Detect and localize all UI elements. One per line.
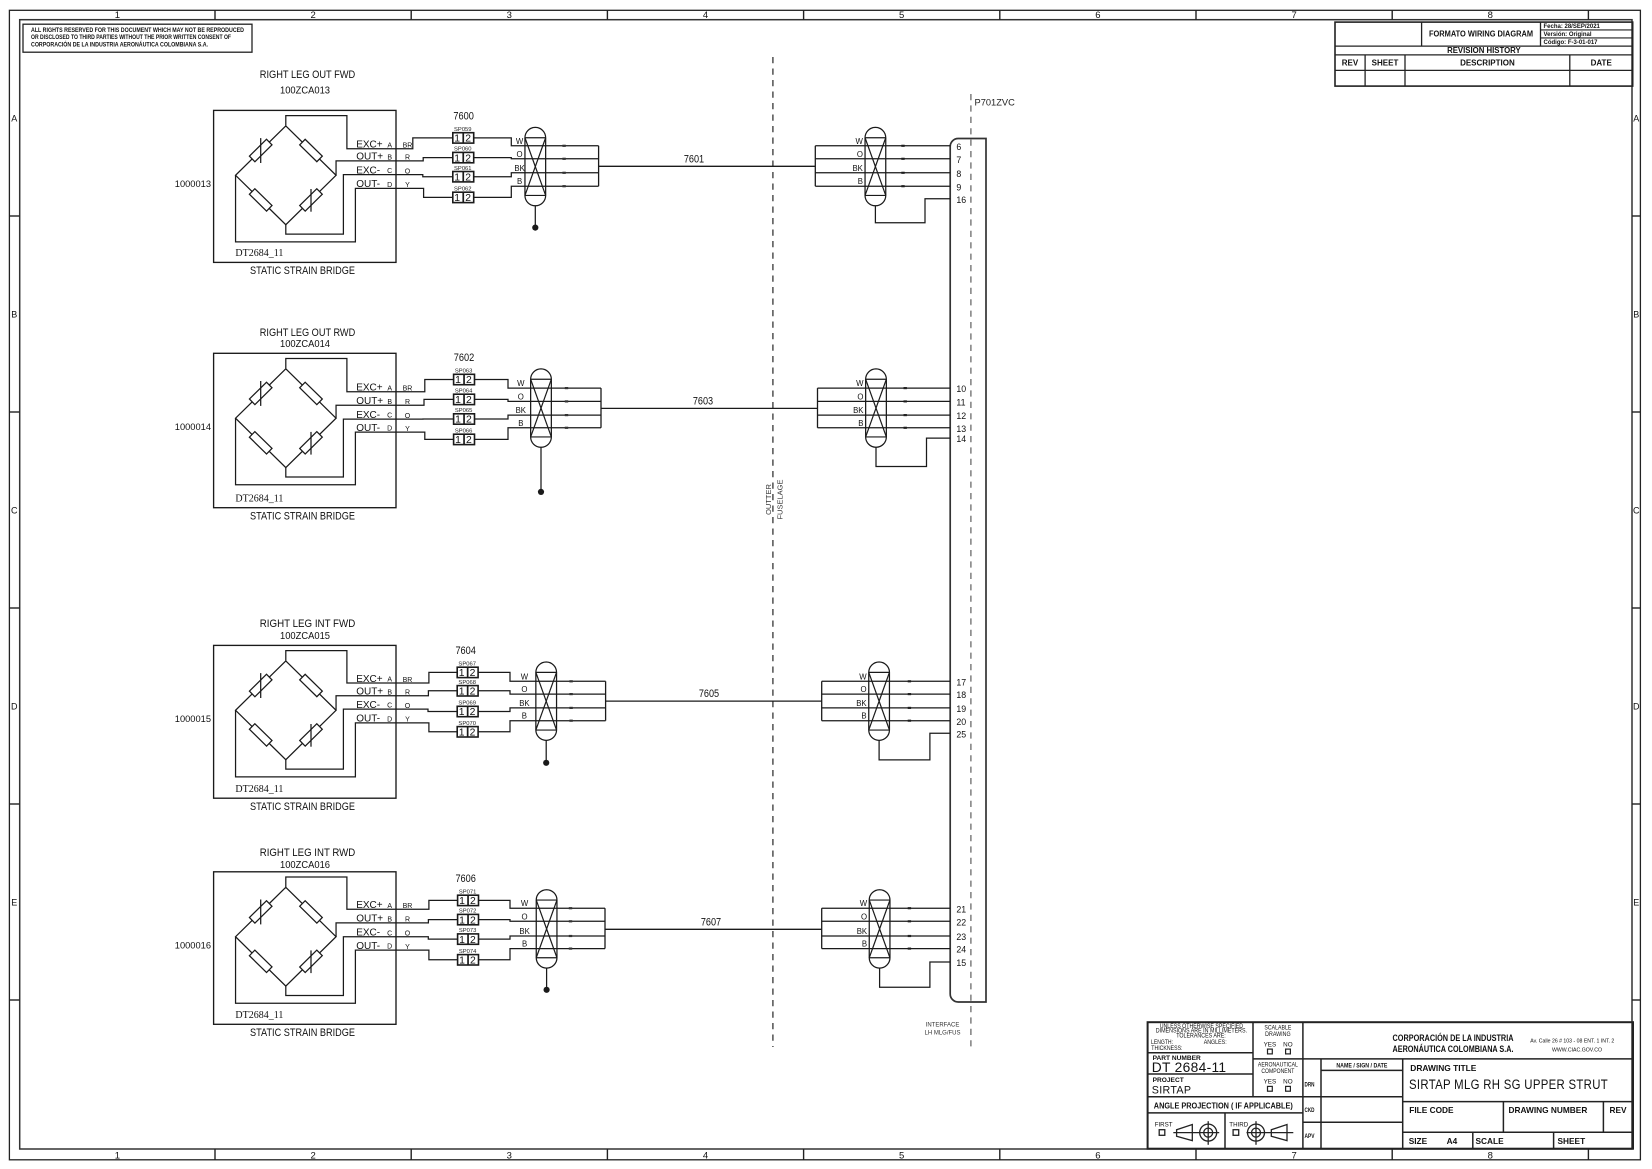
- svg-text:6: 6: [1095, 1150, 1100, 1161]
- svg-text:B: B: [522, 712, 527, 721]
- svg-text:BK: BK: [857, 927, 868, 936]
- svg-text:B: B: [387, 399, 392, 406]
- svg-text:DRN: DRN: [1305, 1082, 1315, 1089]
- svg-text:Código: F-3-01-017: Código: F-3-01-017: [1544, 40, 1599, 46]
- svg-text:O: O: [861, 685, 867, 694]
- svg-text:EXC+: EXC+: [356, 900, 383, 911]
- svg-text:1: 1: [115, 1150, 120, 1161]
- svg-text:7606: 7606: [455, 873, 476, 885]
- svg-text:16: 16: [956, 195, 966, 205]
- svg-text:1: 1: [459, 935, 465, 946]
- svg-text:SP060: SP060: [454, 147, 472, 153]
- svg-text:2: 2: [465, 172, 471, 183]
- svg-text:STATIC STRAIN BRIDGE: STATIC STRAIN BRIDGE: [250, 510, 355, 522]
- svg-text:C: C: [387, 168, 392, 175]
- svg-text:2: 2: [470, 707, 476, 718]
- svg-text:DT2684_11: DT2684_11: [235, 784, 283, 795]
- svg-text:D: D: [11, 701, 18, 711]
- svg-text:11: 11: [956, 398, 965, 408]
- svg-text:A: A: [387, 903, 392, 910]
- svg-text:SP067: SP067: [458, 662, 476, 668]
- svg-text:DRAWING NUMBER: DRAWING NUMBER: [1509, 1105, 1588, 1115]
- svg-text:REV: REV: [1610, 1105, 1628, 1115]
- svg-text:W: W: [517, 379, 525, 388]
- svg-text:B: B: [387, 155, 392, 162]
- svg-text:2: 2: [470, 935, 476, 946]
- svg-text:B: B: [522, 940, 527, 949]
- svg-text:SP066: SP066: [455, 429, 473, 435]
- svg-text:A: A: [387, 677, 392, 684]
- svg-text:1000013: 1000013: [175, 179, 211, 189]
- svg-text:NO: NO: [1283, 1079, 1293, 1086]
- svg-text:EXC-: EXC-: [356, 410, 380, 421]
- svg-text:FILE CODE: FILE CODE: [1409, 1105, 1454, 1115]
- svg-text:D: D: [387, 182, 392, 189]
- svg-text:7600: 7600: [453, 110, 474, 122]
- svg-text:2: 2: [470, 956, 476, 967]
- svg-text:SP072: SP072: [459, 909, 477, 915]
- svg-text:25: 25: [956, 729, 966, 739]
- svg-text:YES: YES: [1264, 1079, 1277, 1086]
- svg-text:YES: YES: [1264, 1041, 1277, 1048]
- svg-text:7601: 7601: [684, 153, 704, 165]
- svg-text:DT2684_11: DT2684_11: [235, 248, 283, 259]
- svg-text:WWW.CIAC.GOV.CO: WWW.CIAC.GOV.CO: [1552, 1048, 1602, 1054]
- svg-text:W: W: [856, 137, 864, 146]
- svg-text:2: 2: [466, 375, 472, 386]
- svg-text:OUT-: OUT-: [356, 423, 380, 434]
- svg-text:3: 3: [507, 10, 512, 21]
- svg-text:2: 2: [466, 415, 472, 426]
- svg-text:OUT-: OUT-: [356, 714, 380, 725]
- svg-text:O: O: [861, 912, 867, 921]
- svg-text:SP063: SP063: [455, 369, 473, 375]
- svg-text:B: B: [862, 940, 867, 949]
- svg-text:1: 1: [454, 153, 460, 164]
- svg-text:2: 2: [465, 134, 471, 145]
- svg-text:E: E: [11, 897, 17, 907]
- svg-text:P701ZVC: P701ZVC: [975, 98, 1016, 108]
- svg-text:100ZCA014: 100ZCA014: [280, 339, 330, 350]
- svg-text:CORPORACIÓN DE LA INDUSTRIA AE: CORPORACIÓN DE LA INDUSTRIA AERONÁUTICA …: [31, 41, 208, 49]
- svg-text:D: D: [387, 426, 392, 433]
- svg-text:7: 7: [1291, 10, 1296, 21]
- svg-text:DT 2684-11: DT 2684-11: [1152, 1060, 1227, 1075]
- svg-text:C: C: [387, 930, 392, 937]
- svg-text:SP065: SP065: [455, 408, 473, 414]
- svg-text:B: B: [517, 177, 522, 186]
- svg-text:2: 2: [465, 153, 471, 164]
- svg-text:B: B: [1633, 309, 1639, 319]
- svg-text:1: 1: [455, 375, 461, 386]
- svg-text:EXC+: EXC+: [356, 140, 383, 151]
- svg-text:ALL RIGHTS RESERVED FOR THIS D: ALL RIGHTS RESERVED FOR THIS DOCUMENT WH…: [31, 27, 244, 34]
- svg-text:2: 2: [310, 1150, 315, 1161]
- svg-text:BK: BK: [519, 927, 530, 936]
- svg-text:23: 23: [956, 932, 966, 942]
- svg-text:1: 1: [454, 193, 460, 204]
- svg-text:Fecha: 28/SEP/2021: Fecha: 28/SEP/2021: [1544, 24, 1601, 30]
- svg-text:RIGHT LEG INT RWD: RIGHT LEG INT RWD: [260, 847, 356, 859]
- svg-text:A4: A4: [1447, 1136, 1458, 1146]
- svg-text:BK: BK: [514, 164, 525, 173]
- svg-text:NAME / SIGN / DATE: NAME / SIGN / DATE: [1336, 1063, 1387, 1070]
- svg-text:2: 2: [470, 728, 476, 739]
- svg-text:EXC-: EXC-: [356, 928, 380, 939]
- svg-text:100ZCA013: 100ZCA013: [280, 85, 330, 96]
- svg-text:1: 1: [115, 10, 120, 21]
- svg-text:19: 19: [956, 704, 966, 714]
- svg-text:O: O: [521, 685, 527, 694]
- svg-text:12: 12: [956, 411, 966, 421]
- svg-text:A: A: [11, 113, 17, 123]
- svg-text:4: 4: [703, 1150, 708, 1161]
- svg-text:8: 8: [1488, 1150, 1493, 1161]
- svg-text:17: 17: [956, 677, 966, 687]
- svg-text:D: D: [387, 944, 392, 951]
- svg-text:BK: BK: [853, 406, 864, 415]
- svg-text:7602: 7602: [454, 352, 475, 364]
- svg-text:1: 1: [459, 728, 465, 739]
- svg-text:2: 2: [470, 896, 476, 907]
- svg-text:FORMATO WIRING DIAGRAM: FORMATO WIRING DIAGRAM: [1429, 30, 1533, 39]
- svg-text:DT2684_11: DT2684_11: [235, 494, 283, 505]
- svg-text:CKD: CKD: [1305, 1107, 1315, 1114]
- svg-text:STATIC STRAIN BRIDGE: STATIC STRAIN BRIDGE: [250, 265, 355, 277]
- svg-text:7603: 7603: [693, 396, 713, 408]
- svg-text:SHEET: SHEET: [1558, 1136, 1586, 1146]
- svg-text:1: 1: [454, 134, 460, 145]
- svg-text:OUT-: OUT-: [356, 941, 380, 952]
- svg-text:NO: NO: [1283, 1041, 1293, 1048]
- svg-text:5: 5: [899, 1150, 904, 1161]
- svg-text:BK: BK: [852, 164, 863, 173]
- svg-text:C: C: [387, 703, 392, 710]
- svg-text:C: C: [11, 505, 18, 515]
- svg-text:ANGLES:: ANGLES:: [1204, 1040, 1227, 1046]
- svg-text:CORPORACIÓN DE LA INDUSTRIA: CORPORACIÓN DE LA INDUSTRIA: [1393, 1032, 1514, 1043]
- svg-text:Versión: Original: Versión: Original: [1544, 32, 1592, 38]
- svg-text:B: B: [11, 309, 17, 319]
- svg-text:C: C: [387, 413, 392, 420]
- svg-text:1: 1: [459, 687, 465, 698]
- svg-text:6: 6: [956, 142, 961, 152]
- svg-text:2: 2: [310, 10, 315, 21]
- svg-text:SP069: SP069: [458, 701, 476, 707]
- svg-text:1000016: 1000016: [175, 941, 211, 951]
- svg-text:COMPONENT: COMPONENT: [1261, 1068, 1294, 1075]
- svg-text:B: B: [858, 419, 863, 428]
- svg-text:RIGHT LEG OUT FWD: RIGHT LEG OUT FWD: [260, 69, 356, 81]
- svg-text:O: O: [857, 392, 863, 401]
- svg-text:7604: 7604: [455, 645, 476, 657]
- svg-text:14: 14: [956, 434, 966, 444]
- svg-text:SP070: SP070: [458, 721, 476, 727]
- svg-text:STATIC STRAIN BRIDGE: STATIC STRAIN BRIDGE: [250, 801, 355, 813]
- svg-text:ANGLE PROJECTION ( IF APPLICAB: ANGLE PROJECTION ( IF APPLICABLE): [1154, 1100, 1293, 1110]
- svg-text:O: O: [522, 912, 528, 921]
- svg-text:20: 20: [956, 717, 966, 727]
- svg-text:EXC-: EXC-: [356, 165, 380, 176]
- svg-text:W: W: [856, 379, 864, 388]
- svg-text:22: 22: [956, 917, 966, 927]
- svg-text:7607: 7607: [701, 916, 721, 928]
- svg-text:BK: BK: [516, 406, 527, 415]
- svg-text:E: E: [1633, 897, 1639, 907]
- svg-text:D: D: [1633, 701, 1640, 711]
- svg-text:OUT+: OUT+: [356, 914, 383, 925]
- svg-text:6: 6: [1095, 10, 1100, 21]
- svg-text:B: B: [858, 177, 863, 186]
- svg-text:B: B: [387, 917, 392, 924]
- svg-text:OUT-: OUT-: [356, 179, 380, 190]
- svg-text:SP073: SP073: [459, 928, 477, 934]
- svg-text:SCALE: SCALE: [1476, 1136, 1505, 1146]
- svg-text:FIRST: FIRST: [1155, 1121, 1173, 1128]
- svg-text:2: 2: [470, 687, 476, 698]
- svg-text:SP071: SP071: [459, 890, 477, 896]
- svg-text:BK: BK: [519, 699, 530, 708]
- svg-text:OUTTER: OUTTER: [764, 484, 773, 515]
- svg-text:100ZCA015: 100ZCA015: [280, 631, 330, 642]
- svg-text:W: W: [860, 899, 868, 908]
- svg-text:SIZE: SIZE: [1409, 1136, 1428, 1146]
- svg-text:SP062: SP062: [454, 187, 472, 193]
- svg-text:2: 2: [466, 435, 472, 446]
- svg-text:B: B: [518, 419, 523, 428]
- svg-text:REV: REV: [1342, 59, 1359, 68]
- svg-text:C: C: [1633, 505, 1640, 515]
- svg-text:2: 2: [465, 193, 471, 204]
- svg-text:RIGHT LEG OUT RWD: RIGHT LEG OUT RWD: [260, 327, 356, 339]
- svg-text:O: O: [518, 392, 524, 401]
- svg-text:13: 13: [956, 424, 966, 434]
- svg-text:W: W: [859, 672, 867, 681]
- svg-text:1: 1: [455, 435, 461, 446]
- svg-text:B: B: [861, 712, 866, 721]
- svg-text:STATIC STRAIN BRIDGE: STATIC STRAIN BRIDGE: [250, 1027, 355, 1039]
- svg-text:INTERFACE: INTERFACE: [926, 1023, 960, 1029]
- svg-text:DESCRIPTION: DESCRIPTION: [1460, 59, 1515, 68]
- svg-text:B: B: [387, 689, 392, 696]
- svg-text:15: 15: [956, 958, 966, 968]
- svg-text:1000015: 1000015: [175, 714, 211, 724]
- svg-text:OUT+: OUT+: [356, 687, 383, 698]
- svg-text:RIGHT LEG INT FWD: RIGHT LEG INT FWD: [260, 618, 356, 630]
- svg-text:1: 1: [459, 956, 465, 967]
- svg-text:SP074: SP074: [459, 949, 477, 955]
- svg-text:1: 1: [459, 896, 465, 907]
- svg-text:OUT+: OUT+: [356, 396, 383, 407]
- svg-text:3: 3: [507, 1150, 512, 1161]
- svg-text:2: 2: [466, 395, 472, 406]
- svg-text:O: O: [517, 150, 523, 159]
- svg-text:REVISION HISTORY: REVISION HISTORY: [1447, 46, 1521, 55]
- svg-text:7605: 7605: [699, 688, 719, 700]
- svg-text:SP059: SP059: [454, 127, 472, 133]
- svg-text:DRAWING TITLE: DRAWING TITLE: [1410, 1063, 1476, 1073]
- svg-text:SIRTAP: SIRTAP: [1152, 1084, 1192, 1096]
- svg-text:OR DISCLOSED TO THIRD PARTIES: OR DISCLOSED TO THIRD PARTIES WITHOUT TH…: [31, 34, 231, 41]
- svg-text:5: 5: [899, 10, 904, 21]
- svg-text:2: 2: [470, 668, 476, 679]
- svg-text:4: 4: [703, 10, 708, 21]
- svg-text:24: 24: [956, 945, 966, 955]
- svg-text:APV: APV: [1305, 1133, 1316, 1140]
- svg-text:SP064: SP064: [455, 389, 473, 395]
- svg-text:SIRTAP MLG RH SG UPPER STRUT: SIRTAP MLG RH SG UPPER STRUT: [1409, 1077, 1608, 1093]
- svg-text:PROJECT: PROJECT: [1153, 1077, 1184, 1084]
- svg-text:8: 8: [956, 169, 961, 179]
- svg-text:FUSELAGE: FUSELAGE: [775, 479, 784, 519]
- svg-text:EXC-: EXC-: [356, 700, 380, 711]
- svg-text:TOLERANCES ARE:: TOLERANCES ARE:: [1176, 1034, 1226, 1040]
- svg-text:EXC+: EXC+: [356, 674, 383, 685]
- svg-text:1: 1: [455, 395, 461, 406]
- svg-text:DT2684_11: DT2684_11: [235, 1010, 283, 1021]
- svg-text:7: 7: [1291, 1150, 1296, 1161]
- svg-text:OUT+: OUT+: [356, 152, 383, 163]
- svg-text:8: 8: [1488, 10, 1493, 21]
- svg-text:100ZCA016: 100ZCA016: [280, 860, 330, 871]
- svg-text:LH MLG/FUS: LH MLG/FUS: [924, 1031, 960, 1037]
- svg-text:1: 1: [459, 668, 465, 679]
- svg-text:9: 9: [956, 182, 961, 192]
- svg-text:1: 1: [459, 915, 465, 926]
- svg-text:SP061: SP061: [454, 166, 472, 172]
- svg-text:1: 1: [455, 415, 461, 426]
- svg-text:A: A: [1633, 113, 1639, 123]
- svg-text:1: 1: [454, 172, 460, 183]
- svg-text:1000014: 1000014: [175, 422, 211, 432]
- svg-text:7: 7: [956, 155, 961, 165]
- svg-text:21: 21: [956, 904, 966, 914]
- svg-text:1: 1: [459, 707, 465, 718]
- svg-text:2: 2: [470, 915, 476, 926]
- svg-text:D: D: [387, 717, 392, 724]
- svg-text:18: 18: [956, 690, 966, 700]
- svg-text:O: O: [857, 150, 863, 159]
- svg-text:SHEET: SHEET: [1372, 59, 1399, 68]
- svg-text:EXC+: EXC+: [356, 383, 383, 394]
- svg-text:SP068: SP068: [458, 680, 476, 686]
- svg-text:DATE: DATE: [1591, 59, 1613, 68]
- svg-text:Av. Calle 26 # 103 - 08 ENT. 1: Av. Calle 26 # 103 - 08 ENT. 1 INT. 2: [1530, 1039, 1614, 1045]
- svg-text:W: W: [521, 672, 529, 681]
- svg-text:10: 10: [956, 384, 966, 394]
- svg-text:BK: BK: [856, 699, 867, 708]
- svg-text:A: A: [387, 385, 392, 392]
- svg-text:THIRD: THIRD: [1229, 1121, 1248, 1128]
- svg-text:THICKNESS:: THICKNESS:: [1151, 1046, 1182, 1052]
- svg-text:AERONÁUTICA COLOMBIANA S.A.: AERONÁUTICA COLOMBIANA S.A.: [1393, 1043, 1514, 1054]
- svg-text:W: W: [521, 899, 529, 908]
- svg-text:W: W: [516, 137, 524, 146]
- svg-text:DRAWING: DRAWING: [1265, 1031, 1291, 1038]
- svg-text:A: A: [387, 142, 392, 149]
